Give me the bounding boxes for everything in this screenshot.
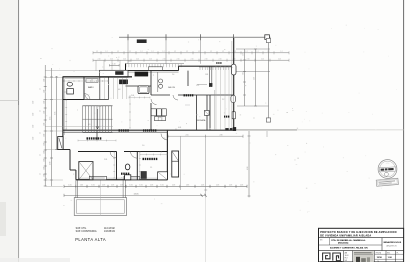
svg-text:2.10: 2.10 [163, 58, 166, 60]
svg-text:DE VIVIENDA UNIFAMILIAR AISLAD: DE VIVIENDA UNIFAMILIAR AISLADA [320, 234, 371, 237]
svg-text:1.05: 1.05 [139, 184, 142, 186]
title col divider [381, 238, 383, 251]
interior wall horizontal y95 b [178, 94, 234, 96]
svg-text:2.80: 2.80 [50, 162, 52, 165]
svg-text:1.05: 1.05 [216, 184, 219, 186]
svg-text:1.2: 1.2 [246, 51, 248, 53]
svg-text:1.2: 1.2 [163, 51, 165, 53]
svg-text:1.85: 1.85 [205, 74, 208, 76]
door arc salon [151, 99, 157, 105]
svg-text:0.8: 0.8 [118, 89, 120, 91]
svg-text:1.2: 1.2 [129, 51, 131, 53]
left exterior wall inner [64, 79, 66, 135]
stamp plate [376, 178, 398, 186]
svg-text:3.40: 3.40 [158, 117, 161, 119]
interior wall mid vertical [150, 71, 152, 95]
dark label BA1 [224, 116, 225, 118]
lower-left wall segment [69, 150, 71, 171]
title divider 2 left [319, 244, 383, 246]
right dim connector mid [236, 71, 270, 73]
column marker 3 [199, 34, 201, 40]
svg-text:2.10: 2.10 [136, 58, 139, 60]
terrace trellis stripe 1 [215, 66, 217, 129]
bottom-left scan shade [0, 202, 6, 236]
lower bath sink [125, 175, 131, 180]
counter rect 1 [151, 109, 156, 116]
lower bath wc [125, 164, 130, 170]
svg-text:1.05: 1.05 [91, 184, 94, 186]
kitchen counter dark block [135, 72, 148, 76]
stamp outer circle [378, 160, 397, 179]
interior wall mid vertical lower [150, 103, 152, 130]
staircase treads [83, 105, 113, 107]
svg-text:1.75: 1.75 [196, 85, 199, 87]
svg-text:AGUIRRE Y CARRETERO, PALMA. S/: AGUIRRE Y CARRETERO, PALMA. S/N [330, 246, 368, 249]
door arc hall [84, 94, 90, 100]
svg-text:C/TA. DE MARBELLA - MARBELLA -: C/TA. DE MARBELLA - MARBELLA - [331, 239, 366, 242]
svg-text:1.2: 1.2 [210, 51, 212, 53]
svg-text:2.85: 2.85 [242, 72, 244, 75]
label dormitorio SE [143, 158, 145, 160]
right wall window pill [231, 64, 236, 75]
dark beam block [137, 40, 146, 43]
room dimension strings vertical [65, 100, 67, 129]
top-left witness lines [95, 60, 97, 71]
svg-text:1.1: 1.1 [40, 110, 42, 112]
interior wall x188 [187, 71, 189, 86]
architect logo greek key [323, 253, 330, 261]
salon faint mark [185, 104, 190, 106]
svg-text:1.2: 1.2 [281, 51, 283, 53]
hall right wall [108, 78, 110, 100]
svg-text:1.2: 1.2 [117, 51, 119, 53]
left fold line upper [18, 0, 20, 105]
left fold line lower [18, 105, 20, 262]
svg-text:SUP. UTIL: SUP. UTIL [76, 228, 87, 230]
hall door arc [85, 95, 90, 100]
mid-bottom dim ticks [167, 135, 169, 138]
svg-text:1.0: 1.0 [142, 145, 144, 147]
wall corner blob [233, 127, 236, 131]
svg-text:2.10: 2.10 [278, 58, 281, 60]
bottom overall dim ticks [63, 194, 65, 197]
svg-text:2.40: 2.40 [33, 137, 35, 140]
svg-text:1.05: 1.05 [240, 184, 243, 186]
svg-text:1.2: 1.2 [152, 51, 154, 53]
svg-text:1.05: 1.05 [111, 184, 114, 186]
fireplace mantel line [197, 84, 207, 86]
left wing top wall [63, 76, 132, 78]
bottom row divider e [395, 251, 397, 262]
svg-text:2.10: 2.10 [191, 58, 194, 60]
mid vertical dim 2 [205, 136, 207, 197]
mid vertical dim [179, 136, 181, 190]
label dormitorio N [143, 129, 144, 131]
label bano S [121, 173, 123, 175]
left vertical dim 2 [51, 68, 53, 186]
wardrobe dividers [103, 78, 105, 99]
svg-text:PLANTA ALTA: PLANTA ALTA [75, 237, 106, 242]
svg-text:1.40: 1.40 [43, 159, 45, 162]
upper wing top wall west [126, 70, 179, 72]
svg-text:2.10: 2.10 [261, 58, 264, 60]
svg-text:1.40: 1.40 [43, 101, 45, 104]
left page margin shading [0, 0, 19, 262]
door arc dorm1 [110, 152, 117, 159]
svg-text:1.3: 1.3 [128, 61, 130, 63]
top wall window rect [149, 67, 163, 71]
hall counter divider [91, 79, 93, 83]
roof overhang line [119, 36, 271, 38]
bottom row divider c [374, 251, 376, 262]
svg-text:5.30: 5.30 [253, 77, 255, 80]
closet outline [79, 162, 93, 180]
kitchen dark block [119, 80, 128, 84]
svg-text:2.10: 2.10 [219, 58, 222, 60]
terrace outer outline [74, 198, 126, 216]
svg-text:1.40: 1.40 [43, 143, 45, 146]
right vertical dim 3 bottom square [266, 118, 270, 122]
shower tray [158, 172, 168, 180]
svg-text:1.40: 1.40 [43, 174, 45, 177]
svg-text:2.10: 2.10 [98, 58, 101, 60]
column marker 4 [233, 34, 235, 40]
terrace trellis stripe 3 [224, 66, 226, 129]
thumbnail caption [354, 252, 372, 253]
svg-text:113.43 M2: 113.43 M2 [104, 228, 115, 230]
column marker 1 [127, 34, 129, 40]
label 8.2-1 [216, 62, 217, 64]
left vertical dim 2 ticks [50, 76, 53, 78]
svg-text:2.10: 2.10 [123, 58, 126, 60]
right exterior wall inner [231, 41, 233, 128]
svg-text:1.40: 1.40 [43, 79, 45, 82]
sill tick band right [199, 66, 234, 68]
left exterior wall [62, 77, 64, 137]
svg-text:1.2: 1.2 [222, 51, 224, 53]
svg-text:1.2: 1.2 [174, 51, 176, 53]
svg-text:2.40: 2.40 [33, 125, 35, 128]
svg-text:1.1: 1.1 [40, 173, 42, 175]
counter rect 2 [157, 109, 162, 116]
right horizontal crease faint segment [297, 129, 404, 131]
svg-text:1.1: 1.1 [150, 167, 152, 169]
bottom wall window 2 mullion [125, 177, 138, 179]
grid witness line 1 [127, 37, 129, 64]
lower interior wall y151 b [124, 151, 167, 153]
balcony bump outline [100, 70, 129, 77]
thumbnail dark mark 3 [367, 257, 370, 262]
bottom wall window 1 mullion [91, 177, 105, 179]
svg-text:6.95: 6.95 [55, 112, 57, 115]
svg-text:2.10: 2.10 [177, 58, 180, 60]
salon column filled [209, 83, 212, 86]
lower interior wall y151 [78, 151, 117, 153]
bottom edge scan shade [0, 258, 70, 262]
cells lower divider [375, 258, 404, 260]
shower tray diagonal [158, 172, 168, 180]
thumbnail dark mark 2 [361, 258, 366, 262]
bottom wall window 2 [124, 176, 140, 179]
svg-text:15/10: 15/10 [377, 257, 383, 259]
top dimension line A ticks and figures [92, 51, 94, 54]
sill tick band left [125, 63, 184, 65]
svg-text:1.2: 1.2 [141, 51, 143, 53]
lower bath fixture dark [141, 172, 146, 179]
wardrobe band [155, 117, 166, 121]
svg-text:1.2: 1.2 [198, 51, 200, 53]
right lower vertical dim ticks [248, 135, 251, 137]
salon flue [204, 111, 209, 116]
grid witness line 4 [233, 37, 235, 70]
svg-text:SUP. CONSTRUIDA: SUP. CONSTRUIDA [76, 230, 97, 233]
bottom exterior wall inner [78, 177, 165, 179]
right lower bump divider [172, 160, 179, 162]
bottom wall window 1 [89, 176, 106, 179]
right wall window 2 [232, 112, 235, 119]
svg-text:SALON: SALON [168, 86, 176, 89]
mid vertical dim 2 faint tail [205, 198, 207, 262]
interior wall horizontal y95 [151, 94, 170, 96]
right vertical dim 2 figure [254, 48, 257, 50]
right lower vertical dim [248, 131, 250, 197]
terrace right connectors [122, 180, 124, 198]
svg-text:1.05: 1.05 [229, 184, 232, 186]
balcony small dim arrows [110, 64, 120, 66]
bath1 bottom wall [63, 99, 84, 101]
svg-text:13.03: 13.03 [345, 255, 349, 257]
thumbnail caption 2 [354, 253, 373, 256]
wardrobe divider wall [99, 77, 101, 100]
svg-text:2.80: 2.80 [219, 134, 222, 136]
main horizontal wall inner line [63, 131, 167, 133]
salon column pair [209, 66, 211, 87]
left wing top wall inner [65, 78, 100, 80]
svg-text:2.10: 2.10 [205, 58, 208, 60]
title block outer frame [319, 228, 404, 262]
bottom row divider d [385, 251, 387, 262]
bottom-right exterior wall [166, 130, 168, 180]
bottom exterior wall [76, 179, 167, 181]
bath1 right wall [83, 78, 85, 100]
closet diagonal 2 [79, 162, 93, 180]
stair mid witness line [45, 126, 113, 128]
svg-text:1.2: 1.2 [234, 51, 236, 53]
svg-text:1.40: 1.40 [43, 111, 45, 114]
wall threshold dark bit 1 [226, 128, 229, 130]
svg-text:2.10: 2.10 [110, 58, 113, 60]
terrace left connectors [75, 180, 77, 198]
bottom row divider a [343, 251, 345, 262]
svg-text:1.1: 1.1 [40, 88, 42, 90]
chimney bump [58, 137, 63, 150]
svg-text:1.20: 1.20 [98, 106, 101, 108]
right dim connector top [236, 48, 270, 50]
right vertical dim 2 [255, 49, 257, 106]
svg-text:1.05: 1.05 [80, 184, 83, 186]
cells header divider [375, 253, 404, 255]
left vertical dim 1 ticks and figures [44, 76, 47, 78]
right vertical dim 1 ticks [243, 59, 246, 61]
room dimension strings horizontal [64, 80, 84, 82]
upper wing left jamb [125, 64, 127, 78]
svg-text:BENAVIDES SOLIS: BENAVIDES SOLIS [384, 241, 402, 244]
door arc dorm2 [131, 152, 138, 159]
right dim connector low [237, 105, 269, 107]
label distribuidor [119, 129, 121, 131]
svg-text:1.40: 1.40 [43, 123, 45, 126]
svg-text:1.2: 1.2 [257, 51, 259, 53]
terrace trellis stripe 4 [228, 66, 230, 129]
svg-text:1.05: 1.05 [160, 184, 163, 186]
lower-left wall jog 2 [70, 169, 76, 171]
left witness horizontals [45, 77, 63, 79]
title divider 1 [319, 237, 404, 239]
bathtub inner [139, 87, 147, 93]
mid-bottom dim line [168, 135, 243, 137]
svg-text:2.10: 2.10 [149, 58, 152, 60]
svg-text:2.05: 2.05 [185, 134, 188, 136]
svg-text:2.05: 2.05 [131, 95, 134, 97]
svg-text:1.05: 1.05 [201, 184, 204, 186]
right sheet border [403, 0, 405, 254]
kitchen counter edge [157, 72, 159, 92]
svg-text:1.40: 1.40 [43, 167, 45, 170]
right wall window 1 mullion [232, 96, 234, 102]
left horizontal crease [0, 100, 19, 102]
hall counter [86, 79, 98, 83]
balcony inner dark block [115, 71, 123, 74]
bottom row divider b [352, 251, 354, 262]
counter rect 3 [162, 109, 166, 116]
wc top-left tank [67, 89, 74, 94]
salon wall a [196, 95, 198, 130]
upper wing top wall inner [128, 71, 179, 73]
door arc dorm3 [161, 134, 167, 140]
kitchen hob circle 2 [159, 84, 163, 88]
svg-text:1.05: 1.05 [102, 184, 105, 186]
lower-left wall jog horizontal [63, 149, 70, 151]
svg-text:1.40: 1.40 [43, 151, 45, 154]
wardrobe band dividers [157, 117, 159, 121]
svg-text:133.88 M2: 133.88 M2 [104, 231, 116, 233]
right wall window 2 mullion [233, 112, 235, 119]
lower interior vertical x137 [136, 152, 138, 180]
salon flue diag [204, 111, 209, 116]
title divider 3 [319, 250, 404, 252]
top dimension line B [93, 59, 289, 61]
left vertical dim 3 ticks [55, 76, 58, 78]
right lower bump mark [172, 151, 179, 161]
svg-text:2.10: 2.10 [247, 58, 250, 60]
top dimension line B ticks and figures [92, 59, 94, 62]
svg-text:1.1: 1.1 [40, 132, 42, 134]
terrace inner outline [76, 200, 124, 213]
thumbnail background [353, 251, 374, 262]
svg-text:1.10: 1.10 [112, 63, 115, 65]
svg-text:TERRAZA: TERRAZA [196, 119, 206, 122]
svg-text:1.2: 1.2 [106, 51, 108, 53]
svg-text:13.05: 13.05 [133, 193, 139, 195]
svg-text:1.1: 1.1 [40, 154, 42, 156]
balcony top witness [45, 69, 99, 71]
scan noise speckles [126, 58, 129, 59]
bath shelf line [64, 91, 67, 93]
upper dim witness mid [214, 90, 216, 130]
right vertical dim 3 top square [266, 38, 270, 42]
left vertical dim 3 [56, 76, 58, 150]
right horizontal crease dark segment [236, 129, 297, 131]
hall wall [84, 99, 109, 101]
interior wall y86 [126, 85, 152, 87]
svg-text:4.05: 4.05 [178, 127, 181, 129]
short witness at 267 [266, 131, 268, 137]
bathtub [138, 86, 149, 94]
right vertical dim 3 [268, 41, 270, 121]
title small col divider [329, 238, 331, 245]
top dimension line A [93, 52, 289, 54]
upper wing top wall east [179, 65, 237, 67]
main horizontal wall [63, 129, 236, 131]
svg-text:1.40: 1.40 [43, 134, 45, 137]
label dormitorio SW [87, 137, 89, 139]
chimney inner mark [59, 138, 62, 148]
right exterior wall [233, 38, 235, 130]
right wall window 1 [231, 95, 236, 102]
roof line end post [265, 35, 270, 40]
lower-left corner wall [75, 170, 77, 180]
svg-text:1.05: 1.05 [120, 184, 123, 186]
svg-text:2.6: 2.6 [172, 74, 174, 76]
wc top-left bowl [67, 82, 72, 86]
bottom dimension row [64, 185, 247, 187]
interior wall x210 [209, 95, 211, 130]
terrace trellis stripe 2 [220, 66, 222, 129]
stair arrow [97, 109, 99, 129]
terrace centre witness [99, 180, 101, 215]
svg-text:1.05: 1.05 [150, 184, 153, 186]
svg-text:1.20: 1.20 [242, 53, 244, 56]
wall threshold dark bit 2 [230, 128, 232, 130]
svg-text:BAÑO: BAÑO [88, 86, 94, 89]
svg-text:1.2: 1.2 [186, 51, 188, 53]
lower interior vertical x97 [96, 130, 98, 140]
grid witness line 3 [199, 37, 201, 64]
svg-text:2.2: 2.2 [222, 99, 224, 101]
svg-text:2.40: 2.40 [33, 113, 35, 116]
salon wall b [206, 95, 208, 130]
right vertical dim 1 [244, 49, 246, 106]
stamp inner circle [380, 161, 396, 177]
svg-text:3.55: 3.55 [50, 117, 52, 120]
lower interior vertical x116 [116, 152, 118, 180]
left vertical dim 1 [44, 65, 46, 186]
thumbnail dark mark 1 [356, 257, 360, 262]
kitchen hob circle 1 [159, 79, 163, 83]
dark label PL TERR [184, 94, 185, 96]
grid witness line 2 [165, 37, 167, 64]
svg-text:(MALAGA): (MALAGA) [338, 242, 349, 245]
bottom overall dim line [64, 194, 206, 196]
right lower bump [172, 151, 179, 177]
svg-text:1.05: 1.05 [129, 184, 132, 186]
upper wing top wall jog [178, 66, 180, 70]
door arc upper [173, 95, 178, 100]
svg-text:1.2: 1.2 [96, 51, 98, 53]
column marker 2 [165, 34, 167, 40]
svg-text:1.05: 1.05 [172, 184, 175, 186]
svg-text:0.9: 0.9 [88, 124, 90, 126]
